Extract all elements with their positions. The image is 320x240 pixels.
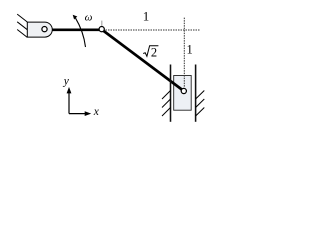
svg-text:y: y [63,75,70,87]
svg-text:ω: ω [85,11,93,23]
svg-text:2: 2 [151,46,157,60]
svg-text:1: 1 [187,42,193,56]
svg-text:x: x [93,106,100,118]
svg-text:1: 1 [143,8,150,23]
